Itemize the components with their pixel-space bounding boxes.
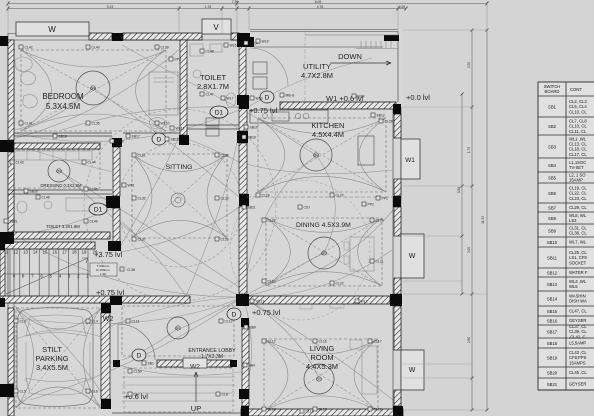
svg-text:CL17, CL: CL17, CL [569, 152, 587, 157]
svg-text:2.50: 2.50 [467, 62, 471, 68]
kitchen fan CF4 [300, 139, 332, 171]
svg-text:4.7X2.8M: 4.7X2.8M [301, 71, 333, 80]
svg-text:11.92: 11.92 [481, 216, 485, 224]
sitting ceiling guides [132, 154, 227, 238]
svg-text:CL28: CL28 [385, 120, 393, 124]
svg-text:CF3: CF3 [321, 252, 327, 256]
window W1 right [401, 139, 420, 179]
svg-text:CL49: CL49 [90, 220, 98, 224]
svg-text:GEYSER: GEYSER [569, 382, 586, 387]
svg-text:WL2: WL2 [361, 300, 368, 304]
svg-text:SB4: SB4 [548, 163, 557, 168]
svg-text:UTILITY: UTILITY [303, 62, 331, 71]
dressing guides [12, 150, 100, 188]
hatched wall: top left segments [89, 33, 112, 40]
tiny fixture labels [19, 45, 23, 49]
svg-text:DISH WA: DISH WA [569, 299, 587, 304]
reference dashes [247, 196, 392, 198]
sweeping dashed circles sitting room [118, 143, 242, 267]
svg-text:CL43: CL43 [16, 161, 24, 165]
svg-text:WL4: WL4 [358, 95, 365, 99]
svg-text:+0.0 lvl: +0.0 lvl [406, 93, 430, 102]
svg-text:CF4: CF4 [313, 154, 319, 158]
svg-text:CL23, CL: CL23, CL [569, 196, 587, 201]
svg-text:CL11: CL11 [132, 320, 140, 324]
svg-text:SB12: SB12 [547, 270, 558, 275]
bedroom bottom thin wall [14, 132, 112, 134]
bedroom fan CF6 [76, 71, 110, 105]
svg-text:CL33: CL33 [221, 154, 229, 158]
svg-text:17: 17 [62, 250, 67, 255]
lobby fan CF1 [167, 317, 189, 339]
toilet2 fixtures [17, 201, 27, 213]
svg-text:2.8X1.7M: 2.8X1.7M [197, 82, 229, 91]
wall: dressing/toilet2 divider [8, 189, 112, 191]
right dimension lines [461, 94, 463, 294]
dressing fan CF5 [48, 160, 70, 182]
svg-text:SB18: SB18 [547, 341, 558, 346]
svg-text:CL8: CL8 [222, 393, 228, 397]
svg-text:SB20: SB20 [30, 190, 38, 194]
svg-text:SB19: SB19 [547, 355, 558, 360]
kitchen ceiling guides [258, 118, 386, 192]
svg-text:TOILET: TOILET [200, 73, 227, 82]
living ceiling guides [264, 339, 378, 411]
door D living [227, 308, 241, 320]
utility washer [253, 62, 267, 74]
svg-text:CF1: CF1 [175, 327, 181, 331]
svg-text:CL29, CL: CL29, CL [569, 205, 587, 210]
svg-text:CL21: CL21 [376, 260, 384, 264]
toilet1 fixtures [190, 44, 203, 56]
svg-text:BEDROOM: BEDROOM [42, 92, 84, 101]
lobby bottom line [112, 412, 241, 414]
svg-text:CF6: CF6 [90, 87, 96, 91]
entrance door swing [118, 324, 155, 360]
hatched wall: right outer segments [394, 114, 401, 138]
svg-text:16: 16 [52, 250, 57, 255]
hatched wall: utility-kitchen divider [280, 102, 396, 109]
hatched wall: bottom right [241, 409, 403, 416]
svg-text:15: 15 [43, 250, 48, 255]
svg-text:CL14: CL14 [268, 408, 276, 412]
svg-text:0.88: 0.88 [457, 187, 461, 193]
svg-text:CL12: CL12 [268, 340, 276, 344]
svg-text:14: 14 [33, 250, 38, 255]
hatched wall: parking right vertical [101, 313, 110, 399]
svg-text:CL40: CL40 [92, 46, 100, 50]
svg-text:PP3: PP3 [175, 58, 182, 62]
svg-text:CL48: CL48 [206, 50, 214, 54]
svg-text:D: D [137, 352, 142, 359]
svg-text:SB4: SB4 [249, 364, 256, 368]
svg-text:LIVING: LIVING [310, 344, 335, 353]
hatched wall: toilet right / utility left [239, 42, 246, 101]
sitting centre rose [171, 193, 185, 207]
svg-text:SB3: SB3 [548, 144, 557, 149]
svg-text:SB19: SB19 [248, 136, 256, 140]
hatched wall: mid bottom band [0, 296, 190, 303]
svg-text:2.80: 2.80 [467, 337, 471, 343]
stair landing label CL38 [120, 267, 124, 271]
svg-text:CL36, CL: CL36, CL [569, 231, 587, 236]
svg-text:SB1: SB1 [148, 362, 155, 366]
svg-text:DOWN: DOWN [338, 52, 362, 61]
svg-text:CONT: CONT [570, 87, 582, 92]
svg-text:,CL42, C: ,CL42, C [569, 334, 586, 339]
svg-text:STILT: STILT [42, 345, 62, 354]
svg-text:1.7X2.3M: 1.7X2.3M [201, 354, 223, 360]
svg-text:CL37: CL37 [138, 238, 146, 242]
living sofa [362, 346, 377, 394]
svg-text:SB8: SB8 [548, 216, 557, 221]
svg-text:SB9: SB9 [548, 228, 557, 233]
svg-text:SB10: SB10 [547, 240, 558, 245]
svg-text:SB17: SB17 [132, 135, 140, 139]
outer wall outline thin edges [8, 33, 250, 35]
svg-text:BOARD: BOARD [545, 89, 560, 94]
svg-text:SB5: SB5 [548, 175, 557, 180]
svg-text:CL4: CL4 [92, 320, 98, 324]
svg-text:CF5: CF5 [56, 170, 62, 174]
svg-text:WL5: WL5 [569, 284, 578, 289]
svg-text:SB9: SB9 [250, 326, 257, 330]
door D1 toilet1 [210, 106, 228, 118]
dining table [350, 237, 374, 271]
window W top [16, 22, 89, 36]
svg-text:W: W [409, 253, 416, 260]
svg-text:1.78: 1.78 [205, 5, 212, 9]
svg-text:CL10, CL: CL10, CL [569, 109, 587, 114]
svg-text:CL38: CL38 [127, 268, 135, 272]
svg-text:CL45 ,CL: CL45 ,CL [569, 370, 587, 375]
svg-text:CL11, CL: CL11, CL [569, 129, 587, 134]
svg-text:SB2: SB2 [548, 124, 557, 129]
svg-text:CL13: CL13 [319, 408, 327, 412]
stairs treads upper flight [9, 249, 11, 299]
stair note box [90, 263, 117, 276]
kitchen counter & sink [250, 110, 328, 123]
svg-text:SB14: SB14 [547, 296, 558, 301]
svg-text:D: D [232, 311, 237, 318]
svg-text:CL22: CL22 [336, 282, 344, 286]
svg-text:GEYSER: GEYSER [569, 318, 586, 323]
hatched wall: dressing top [14, 143, 100, 149]
svg-text:CL32: CL32 [138, 197, 146, 201]
svg-text:0.55: 0.55 [399, 5, 406, 9]
hatched wall: dining bottom [243, 296, 390, 304]
svg-text:L5,5AMP: L5,5AMP [569, 341, 586, 346]
svg-text:+0.75 lvl: +0.75 lvl [252, 308, 280, 317]
svg-text:CL3: CL3 [20, 320, 26, 324]
door D bedroom [152, 133, 166, 145]
svg-text:CS7: CS7 [304, 206, 311, 210]
svg-text:DINING 4.5X3.9M: DINING 4.5X3.9M [296, 222, 351, 229]
svg-text:1.75: 1.75 [467, 147, 471, 153]
dining ceiling guides [266, 218, 382, 286]
svg-text:SOCKET: SOCKET [569, 260, 587, 265]
hatched wall: toilet left vertical [180, 40, 187, 135]
svg-text:CL50: CL50 [134, 370, 142, 374]
svg-text:SB15: SB15 [171, 138, 179, 142]
svg-text:WATER F: WATER F [569, 270, 588, 275]
svg-text:SB16: SB16 [116, 140, 124, 144]
window W2 box [183, 358, 207, 368]
svg-text:SB6: SB6 [548, 191, 557, 196]
svg-text:CL6: CL6 [92, 390, 98, 394]
svg-text:4.5X4.4M: 4.5X4.4M [312, 130, 344, 139]
svg-text:WL13: WL13 [256, 300, 265, 304]
door D utility [260, 91, 274, 103]
svg-text:D: D [157, 136, 162, 143]
dressing cabinets [14, 151, 92, 160]
svg-text:CL20: CL20 [268, 219, 276, 223]
svg-text:SB10: SB10 [250, 126, 258, 130]
svg-text:SB1: SB1 [548, 104, 557, 109]
svg-text:W: W [48, 25, 56, 34]
svg-text:CL46: CL46 [42, 196, 50, 200]
lobby ceiling guides [122, 306, 234, 356]
columns [0, 36, 8, 46]
svg-text:KITCHEN: KITCHEN [312, 121, 345, 130]
svg-text:CL30: CL30 [221, 197, 229, 201]
svg-text:SB11: SB11 [547, 255, 558, 260]
svg-text:CL44: CL44 [88, 161, 96, 165]
wiring arc hub curves [8, 48, 181, 140]
window W right middle [401, 234, 424, 278]
svg-text:CL39: CL39 [161, 46, 169, 50]
svg-text:WL9: WL9 [262, 40, 269, 44]
svg-text:CL12: CL12 [225, 320, 233, 324]
svg-text:TOILET 3.3X1.8M: TOILET 3.3X1.8M [46, 224, 80, 229]
svg-text:SB18: SB18 [59, 135, 67, 139]
svg-text:CL17: CL17 [374, 340, 382, 344]
parking ceiling guides [16, 308, 101, 408]
svg-text:WL3: WL3 [256, 97, 263, 101]
bed bedroom [149, 72, 178, 115]
hatched wall: entrance W2 wall [157, 360, 232, 367]
svg-text:W2: W2 [103, 316, 114, 323]
svg-text:CL45: CL45 [90, 188, 98, 192]
svg-text:WL7: WL7 [227, 97, 234, 101]
svg-text:LS2: LS2 [569, 218, 577, 223]
svg-text:CL5: CL5 [20, 390, 26, 394]
svg-text:SB17: SB17 [547, 329, 558, 334]
entrance steps [122, 376, 235, 378]
svg-text:SB21: SB21 [547, 382, 558, 387]
svg-text:SB7: SB7 [548, 205, 557, 210]
svg-text:6.09: 6.09 [315, 0, 322, 4]
svg-text:MB-G: MB-G [286, 94, 295, 98]
svg-text:D1: D1 [94, 206, 103, 213]
svg-text:TV-SET: TV-SET [569, 165, 584, 170]
stairs arrow [6, 258, 88, 294]
svg-text:SITTING: SITTING [166, 164, 193, 171]
hatched wall: living left vertical [242, 327, 249, 406]
svg-text:CF2: CF2 [316, 378, 322, 382]
switchboard schedule table [538, 82, 594, 390]
svg-text:W2: W2 [190, 364, 200, 371]
svg-text:13: 13 [23, 250, 28, 255]
svg-text:WF1: WF1 [128, 184, 135, 188]
hatched wall: stairs top [0, 242, 95, 249]
svg-text:UP: UP [191, 404, 201, 413]
svg-text:5.3X4.5M: 5.3X4.5M [46, 102, 81, 111]
svg-text:CL41: CL41 [25, 122, 33, 126]
svg-text:DRESSING 0.3X2.9M: DRESSING 0.3X2.9M [41, 183, 82, 188]
svg-text:CL42: CL42 [25, 46, 33, 50]
hatched wall: toilet2 bottom [13, 232, 110, 239]
svg-text:3,4X5.5M: 3,4X5.5M [36, 363, 68, 372]
svg-text:4.4X5.3M: 4.4X5.3M [306, 362, 338, 371]
svg-text:18: 18 [72, 250, 77, 255]
toilet1 bottom thin wall [187, 124, 239, 126]
svg-text:+0.75 lvl: +0.75 lvl [96, 288, 124, 297]
svg-text:L:30: L:30 [100, 272, 106, 276]
kitchen fridge [358, 136, 374, 165]
door D1 toilet2 [89, 203, 107, 215]
svg-text:3.00: 3.00 [467, 247, 471, 253]
svg-text:SB12: SB12 [377, 114, 385, 118]
svg-text:15AMP: 15AMP [569, 178, 583, 183]
svg-text:CL23: CL23 [268, 280, 276, 284]
svg-text:SB15: SB15 [547, 309, 558, 314]
svg-text:CL19: CL19 [374, 408, 382, 412]
svg-text:4.78: 4.78 [317, 5, 324, 9]
svg-text:+3.75 lvl: +3.75 lvl [94, 250, 122, 259]
svg-text:CL24: CL24 [376, 219, 384, 223]
svg-text:SB20: SB20 [547, 370, 558, 375]
hatched wall: left outer [8, 40, 14, 140]
svg-text:CL47, CL: CL47, CL [569, 309, 587, 314]
svg-text:WL12: WL12 [176, 127, 185, 131]
down stair treads [360, 41, 362, 48]
dining fan CF3 [308, 237, 340, 269]
svg-text:SB16: SB16 [547, 318, 558, 323]
living fan CF2 [304, 364, 334, 394]
svg-text:W: W [409, 367, 416, 374]
wardrobe blobs bedroom [15, 57, 32, 71]
svg-text:WL7, WL: WL7, WL [569, 240, 587, 245]
svg-text:D: D [265, 94, 270, 101]
svg-text:V: V [213, 23, 219, 32]
svg-text:PP2: PP2 [368, 203, 375, 207]
svg-text:7.99: 7.99 [232, 0, 239, 4]
svg-text:CL31: CL31 [138, 154, 146, 158]
hatched wall: sitting left vertical [113, 147, 120, 196]
svg-text:5.23: 5.23 [107, 5, 114, 9]
svg-text:CL47: CL47 [206, 93, 214, 97]
svg-text:19: 19 [82, 250, 87, 255]
svg-text:CL35: CL35 [92, 122, 100, 126]
window W right lower [401, 350, 424, 390]
parking car [17, 308, 93, 407]
svg-text:SB21: SB21 [10, 220, 18, 224]
svg-text:W1: W1 [405, 157, 415, 164]
svg-text:CL7: CL7 [134, 393, 140, 397]
svg-text:CL16: CL16 [319, 340, 327, 344]
svg-text:CL36: CL36 [221, 238, 229, 242]
svg-text:15AMPS: 15AMPS [569, 360, 586, 365]
svg-text:WL5: WL5 [230, 44, 237, 48]
ventilator V [202, 19, 231, 34]
svg-text:ROOM: ROOM [310, 353, 333, 362]
door D lobby [132, 349, 146, 361]
top dimension lines [8, 3, 487, 5]
bedroom ceiling guides [21, 50, 166, 131]
svg-text:+0.75 lvl: +0.75 lvl [249, 106, 277, 115]
svg-text:CL13: CL13 [306, 410, 314, 414]
vestibule shelves [206, 118, 219, 126]
svg-text:SB11: SB11 [248, 206, 256, 210]
svg-text:SB13: SB13 [547, 282, 558, 287]
hatched wall: sitting right vertical [239, 105, 247, 131]
svg-text:D1: D1 [215, 109, 224, 116]
svg-text:PARKING: PARKING [35, 354, 68, 363]
svg-text:WL10: WL10 [161, 122, 170, 126]
